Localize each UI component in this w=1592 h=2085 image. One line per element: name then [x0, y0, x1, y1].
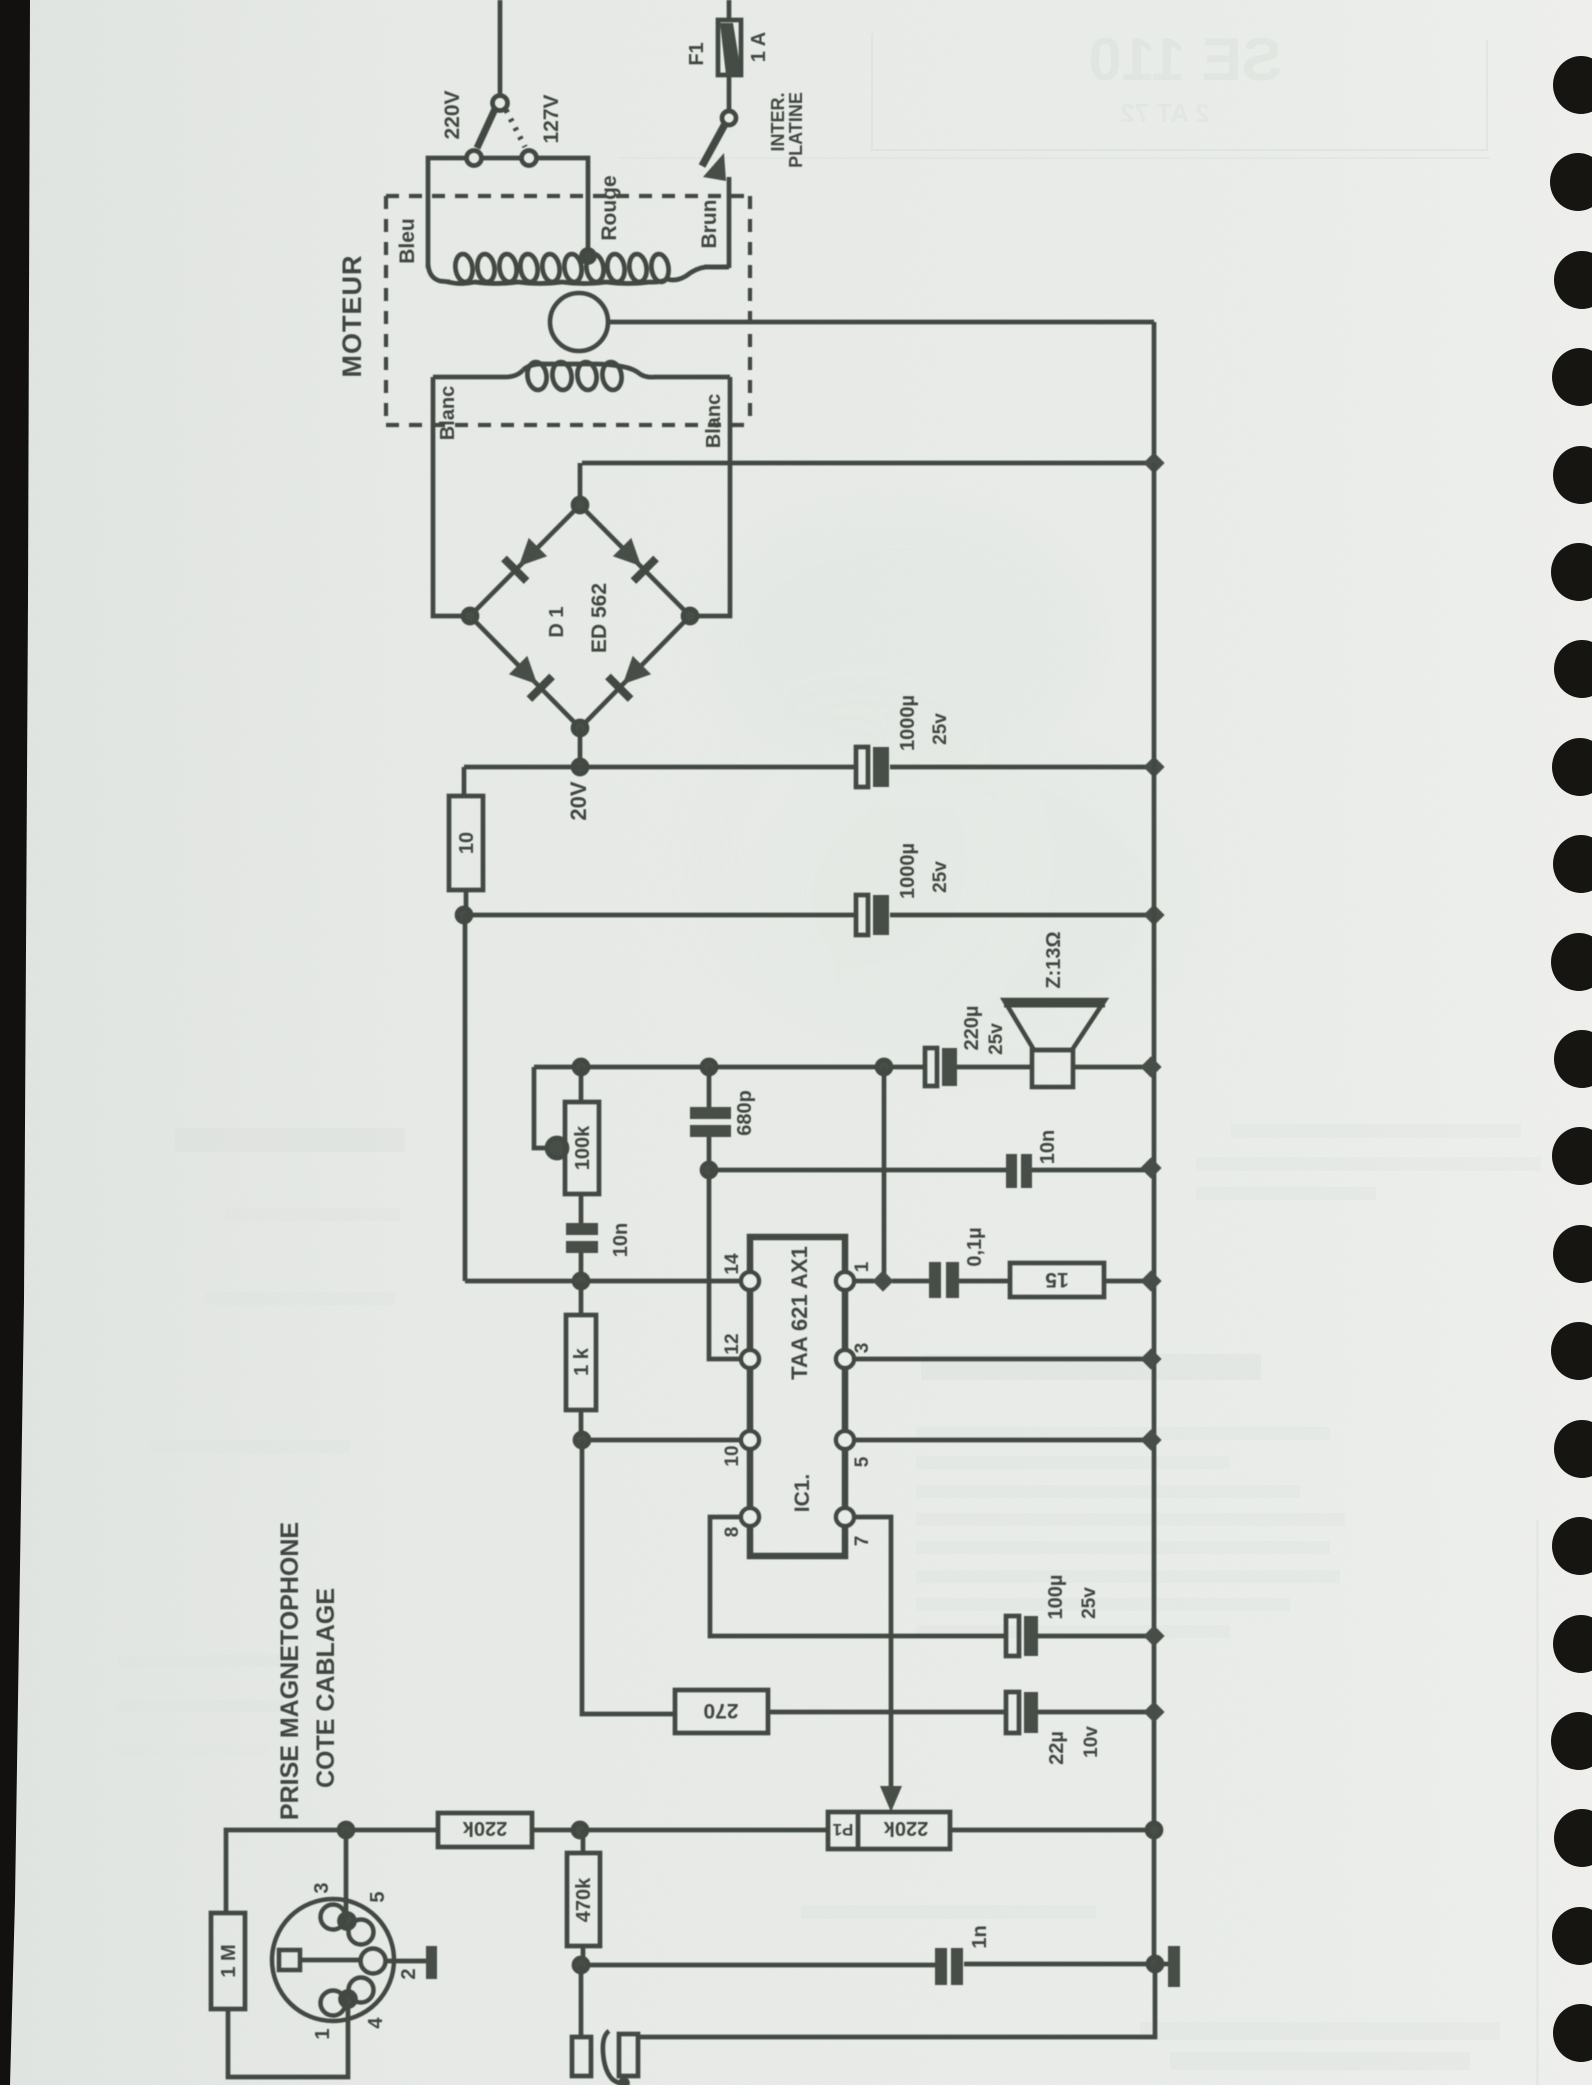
- junction rail-1170: [1140, 1157, 1161, 1178]
- diode top-right: [611, 536, 656, 581]
- wire bottom return: [638, 1964, 1155, 2037]
- wire pin5: [854, 1438, 1151, 1443]
- resistor 1 k: [566, 1281, 596, 1440]
- potentiometer P1 220k body: [828, 1812, 1154, 1849]
- speaker: [1004, 1000, 1105, 1087]
- svg-text:5: 5: [367, 1891, 389, 1902]
- spiral binding holes: [1550, 56, 1592, 2062]
- svg-text:1 k: 1 k: [571, 1347, 593, 1376]
- bridge rectifier D1 ED562: [463, 498, 697, 735]
- svg-text:5: 5: [852, 1456, 873, 1467]
- svg-text:220µ: 220µ: [961, 1006, 983, 1051]
- pin 10: [741, 1431, 759, 1449]
- svg-text:P1: P1: [833, 1820, 854, 1839]
- svg-text:1000µ: 1000µ: [897, 843, 919, 899]
- wire bottom left stub: [579, 1965, 584, 2036]
- svg-text:14: 14: [722, 1253, 743, 1275]
- pin 2: [361, 1949, 386, 1974]
- dashed MOTEUR enclosure: [386, 196, 750, 425]
- svg-text:270: 270: [703, 1699, 738, 1722]
- pin 8: [741, 1508, 759, 1526]
- motor M: [550, 293, 608, 351]
- capacitor 1n: [935, 1948, 963, 1985]
- junction rail-1964: [1148, 1957, 1162, 1971]
- svg-text:COTE CABLAGE: COTE CABLAGE: [312, 1588, 340, 1788]
- wire 1170 to 10n: [709, 1168, 1151, 1173]
- svg-text:1n: 1n: [969, 1925, 991, 1948]
- ground rail right side: [1152, 463, 1157, 1964]
- svg-text:1: 1: [852, 1261, 873, 1272]
- junction rail-1359: [1140, 1348, 1161, 1369]
- svg-text:10n: 10n: [610, 1223, 632, 1257]
- pin 2 wire: [300, 1958, 360, 1963]
- svg-text:15: 15: [1045, 1268, 1069, 1291]
- chassis ground bar right: [1155, 1946, 1180, 1987]
- svg-text:Bleu: Bleu: [396, 218, 419, 264]
- pin 5: [349, 1920, 374, 1945]
- left rail: [463, 915, 468, 1281]
- svg-text:1 M: 1 M: [218, 1944, 240, 1977]
- junction 884-1067: [877, 1060, 891, 1074]
- wire pin3: [854, 1357, 1151, 1362]
- junction 20V rail left: [573, 760, 587, 774]
- svg-text:25v: 25v: [930, 861, 951, 893]
- paper grain: [0, 0, 1, 1]
- junction rail-1440: [1140, 1429, 1161, 1450]
- svg-text:1: 1: [312, 2028, 334, 2039]
- bottom component left: [572, 2037, 591, 2076]
- svg-text:470k: 470k: [573, 1877, 595, 1922]
- svg-text:8: 8: [722, 1527, 743, 1538]
- second rail wire: [464, 913, 1154, 918]
- switch voltage selector common pole: [493, 96, 508, 111]
- svg-text:680p: 680p: [734, 1090, 756, 1136]
- diode bottom-right: [608, 654, 653, 699]
- junction rail-1067: [1140, 1056, 1161, 1077]
- svg-text:F1: F1: [686, 42, 708, 65]
- switch dotted throw to 127V: [506, 110, 525, 147]
- wire pin1 branch: [854, 1067, 929, 1281]
- resistor 1 M: [211, 1913, 348, 2077]
- contact 220V: [467, 151, 482, 166]
- svg-text:10n: 10n: [1037, 1130, 1059, 1164]
- capacitor 10n left: [566, 1223, 598, 1281]
- pin 4: [349, 1978, 374, 2003]
- pin 3: [836, 1350, 854, 1368]
- wire bridge top to ground rail: [580, 463, 1154, 505]
- junction 582-1440: [575, 1433, 589, 1447]
- junction 680p top: [702, 1060, 716, 1074]
- bottom curve end dot: [621, 2080, 628, 2085]
- wire 1965 net: [581, 1964, 1155, 1965]
- pin 1: [836, 1272, 854, 1290]
- diode top-left: [504, 536, 549, 581]
- svg-text:Rouge: Rouge: [598, 175, 621, 240]
- capacitor C1 1000u 25v: [856, 747, 889, 787]
- svg-text:PRISE MAGNETOPHONE: PRISE MAGNETOPHONE: [276, 1522, 304, 1820]
- potentiometer 100k wiper branch: [534, 1067, 547, 1148]
- svg-text:10v: 10v: [1081, 1726, 1102, 1758]
- fuse feed wire: [727, 0, 732, 20]
- svg-text:25v: 25v: [930, 713, 951, 745]
- svg-text:7: 7: [852, 1536, 873, 1547]
- pin 5: [836, 1431, 854, 1449]
- svg-text:22µ: 22µ: [1046, 1731, 1068, 1765]
- svg-text:20V: 20V: [566, 781, 591, 820]
- svg-text:Blanc: Blanc: [437, 386, 459, 440]
- svg-text:ED 562: ED 562: [588, 583, 611, 653]
- bottom component right: [619, 2034, 638, 2076]
- svg-text:MOTEUR: MOTEUR: [337, 255, 367, 378]
- junction 470k top: [573, 1823, 587, 1837]
- DIN socket PRISE MAGNETOPHONE: [272, 1830, 437, 2021]
- wire pin8 branch: [710, 1517, 1006, 1636]
- wiper contact dot: [547, 1138, 567, 1158]
- diode bottom-left: [507, 654, 552, 699]
- svg-text:Brun: Brun: [698, 200, 721, 249]
- svg-text:100µ: 100µ: [1045, 1575, 1067, 1620]
- svg-text:25v: 25v: [986, 1023, 1007, 1055]
- junction rail-463: [1143, 452, 1164, 473]
- junction din top branch: [339, 1823, 353, 1837]
- svg-text:Z:13Ω: Z:13Ω: [1043, 931, 1065, 988]
- wire Blanc right: [698, 377, 730, 616]
- wire pin10: [582, 1438, 741, 1443]
- junction rail-1830: [1147, 1823, 1161, 1837]
- junction rail-1281: [1140, 1270, 1161, 1291]
- primary tap node: [582, 250, 595, 263]
- junction 1k top: [574, 1274, 588, 1288]
- svg-text:220k: 220k: [462, 1817, 507, 1839]
- svg-text:PLATINE: PLATINE: [786, 92, 806, 168]
- svg-text:2: 2: [398, 1968, 420, 1979]
- capacitor 0,1u: [929, 1262, 1010, 1298]
- resistor 10: [449, 767, 483, 915]
- svg-text:100k: 100k: [572, 1125, 594, 1170]
- contact 127V: [522, 151, 537, 166]
- wire bottom curve: [603, 2031, 623, 2084]
- capacitor 22u 10v: [1006, 1692, 1154, 1733]
- capacitor 100u 25v: [1006, 1616, 1154, 1656]
- junction rail-915: [1143, 904, 1164, 925]
- wire motor to right rail: [608, 322, 1154, 463]
- resistor 15: [1010, 1263, 1151, 1297]
- svg-text:3: 3: [852, 1343, 873, 1354]
- resistor 270: [675, 1690, 1006, 1733]
- capacitor 680p: [690, 1067, 741, 1359]
- junction 915 rail left: [457, 908, 471, 922]
- svg-text:1 A: 1 A: [748, 32, 770, 62]
- svg-text:TAA 621 AX1: TAA 621 AX1: [787, 1246, 812, 1380]
- switch INTER. PLATINE: [702, 111, 736, 268]
- left page black edge: [0, 0, 30, 2085]
- schematic ink: [211, 0, 1180, 2085]
- svg-text:10: 10: [722, 1445, 743, 1466]
- svg-text:127V: 127V: [540, 94, 563, 143]
- svg-text:IC1.: IC1.: [791, 1474, 814, 1513]
- junction 884-1281: [872, 1270, 893, 1291]
- wire pin7 branch: [854, 1517, 891, 1786]
- wire feedback 1281: [465, 1279, 741, 1284]
- pin 7: [836, 1508, 854, 1526]
- svg-text:4: 4: [365, 2017, 387, 2029]
- wire Bleu branch: [428, 158, 521, 268]
- capacitor C2 1000u 25v: [856, 895, 889, 935]
- pin 1: [321, 1991, 346, 2016]
- svg-text:3: 3: [311, 1882, 333, 1893]
- capacitor 10n right: [1006, 1154, 1032, 1188]
- capacitor 220u 25v: [925, 1048, 957, 1086]
- resistor 220k: [438, 1813, 532, 1847]
- junction rail-1712: [1143, 1701, 1164, 1722]
- wire rail 1067: [534, 1065, 1151, 1070]
- 20V rail wire: [464, 765, 1154, 770]
- svg-text:1000µ: 1000µ: [897, 695, 919, 751]
- chassis ground bar din: [426, 1946, 437, 1979]
- resistor 470k: [567, 1830, 600, 1965]
- junction 470k bottom: [574, 1958, 588, 1972]
- keyway square pin: [279, 1950, 300, 1970]
- svg-text:220V: 220V: [441, 90, 464, 139]
- wire bridge bottom to 20V rail: [578, 728, 583, 767]
- svg-text:220k: 220k: [883, 1817, 928, 1839]
- junction rail-1636: [1143, 1625, 1164, 1646]
- potentiometer 100k: [565, 1067, 599, 1223]
- svg-text:D 1: D 1: [546, 606, 568, 637]
- svg-text:Blanc: Blanc: [703, 394, 725, 448]
- op-amp IC1 TAA621AX1 body: [750, 1237, 845, 1556]
- svg-text:12: 12: [722, 1333, 743, 1354]
- pin 3: [321, 1905, 346, 1930]
- wire Brun: [704, 265, 729, 270]
- wire Rouge tap: [537, 158, 588, 252]
- wire Blanc left: [433, 377, 462, 616]
- svg-text:25v: 25v: [1079, 1587, 1100, 1619]
- pin 14: [741, 1272, 759, 1290]
- potentiometer P1 220k wiper arrow: [880, 1786, 902, 1812]
- wire mains input: [498, 0, 503, 96]
- transformer primary winding: [428, 250, 729, 284]
- junction rail-767: [1143, 756, 1164, 777]
- pin 12: [741, 1350, 759, 1368]
- wire input line 1830: [226, 1830, 828, 1913]
- svg-text:INTER.: INTER.: [768, 92, 788, 151]
- wire 270 branch: [582, 1440, 675, 1714]
- junction 680p bottom: [702, 1163, 716, 1177]
- svg-text:10: 10: [456, 832, 478, 854]
- transformer secondary winding: [433, 361, 730, 391]
- fuse F1 1A: [718, 20, 741, 111]
- svg-text:0,1µ: 0,1µ: [964, 1227, 986, 1266]
- switch blade to 220V: [477, 109, 495, 148]
- junction pot top: [574, 1060, 588, 1074]
